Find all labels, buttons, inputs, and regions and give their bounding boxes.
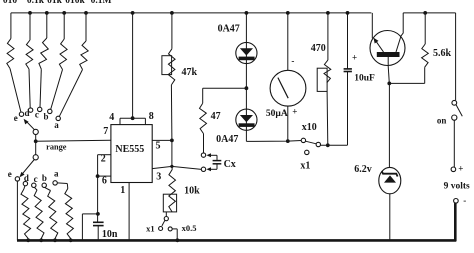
switch contact S1a [56,116,60,120]
switch contact S2a [53,181,57,185]
node 470 junction [326,143,330,147]
svg-text:0.1M: 0.1M [91,0,112,6]
resistor R-shunt3 [45,187,51,190]
meter M1 50uA [287,13,289,70]
svg-text:d: d [24,173,29,183]
switch contact x10 [301,138,305,142]
capacitor C2 10n [93,221,104,223]
svg-text:47k: 47k [182,67,198,78]
svg-text:9 volts: 9 volts [444,182,470,192]
transistor Q1 [371,13,373,38]
svg-text:NE555: NE555 [115,144,144,155]
wire contact e to ground [16,181,18,240]
switch contact S1e [19,112,23,116]
node rail junctions [28,11,32,15]
capacitor Cx under test [213,160,222,162]
capacitor C3 10uF [347,13,349,69]
node cap junction [96,212,100,216]
wire 47 top [203,87,247,89]
svg-text:b: b [42,173,47,183]
wire raw rail to switch [455,13,457,100]
svg-text:8: 8 [149,111,154,122]
wire switch to battery [453,120,455,167]
svg-text:0.1k: 0.1k [27,0,45,6]
switch contact S2b [42,183,46,187]
svg-text:5: 5 [156,141,161,152]
svg-text:5.6k: 5.6k [433,48,452,59]
svg-text:e: e [14,113,18,123]
wire zener to ground [389,194,391,240]
resistor VR2 470 [327,13,329,60]
svg-text:470: 470 [311,43,326,54]
switch contact S2d [23,181,27,185]
resistor R-range4 [63,13,65,39]
wire pin 6 [98,175,111,177]
switch wiper S1 [33,129,38,134]
node battery plus terminal [451,167,456,172]
svg-text:010: 010 [3,0,18,6]
svg-text:01k: 01k [47,0,63,6]
resistor VR1 47k [171,13,173,49]
svg-text:c: c [34,174,38,184]
svg-text:x10: x10 [302,122,317,133]
svg-text:Cx: Cx [224,159,236,170]
switch contact S2c [32,183,36,187]
switch contact S2e [15,177,19,181]
switch contact S1b [48,109,52,113]
diode D2 0A47 [236,109,257,130]
svg-text:4: 4 [109,112,114,123]
svg-text:x1: x1 [146,224,155,234]
node pin5 junction [170,139,174,143]
wire diode out [246,140,301,143]
switch contact x1 lower [159,227,163,231]
wire pin 2 [98,154,111,156]
svg-text:1: 1 [120,185,125,196]
switch S5 on [452,100,457,105]
svg-text:a: a [54,120,59,130]
node Cx bottom terminal [201,167,205,171]
resistor R-shunt1 [24,186,25,189]
node pin2-6 tie [96,174,100,178]
svg-text:+: + [292,106,297,116]
wire pin 1 to ground [128,183,130,240]
wire top rail raw segment (right) [403,12,455,14]
resistor R-range1 [10,13,12,39]
svg-text:6: 6 [102,176,107,187]
wire battery minus to ground [454,203,457,241]
node battery minus terminal [454,199,459,204]
svg-text:6.2v: 6.2v [354,164,372,175]
svg-text:-: - [291,56,294,66]
switch contact x0.5 [168,227,172,231]
wire pin 5 [152,139,172,141]
svg-text:7: 7 [103,126,108,137]
svg-text:d: d [24,108,29,118]
svg-text:c: c [35,109,39,119]
wire pin 7 [36,140,111,141]
svg-text:on: on [437,115,447,125]
node 47 junction [245,86,249,90]
resistor R-range3 [46,13,48,38]
svg-text:range: range [46,143,67,152]
op-amp U1 NE555 body [111,125,152,183]
wire pin 3 [152,166,201,169]
svg-text:3: 3 [156,171,161,182]
resistor R6 47 [202,88,204,103]
switch wiper S2 [33,155,38,160]
resistor R7 5.6k [424,13,426,44]
switch contact x1 upper [305,150,309,154]
resistor R-shunt2 [34,187,37,190]
wire top supply rail (regulated) [11,12,372,14]
resistor VR3 10k [171,166,173,169]
svg-text:+: + [352,52,357,62]
svg-text:e: e [8,169,12,179]
svg-text:0A47: 0A47 [216,134,238,145]
wire meter to diode wire [287,106,289,141]
svg-text:+: + [458,163,463,173]
node pin7 junction [34,139,38,143]
wire wiper link [35,141,37,154]
svg-text:010k: 010k [65,0,85,6]
switch contact S1d [28,108,32,112]
svg-text:10n: 10n [102,229,118,240]
diode D1 0A47 [245,13,247,142]
svg-text:b: b [43,111,48,121]
wire ground detour [82,213,98,215]
wire pins 4 8 supply bracket [120,117,145,119]
wire base to zener [388,83,390,167]
svg-text:10k: 10k [184,186,200,197]
svg-text:47: 47 [211,111,221,122]
svg-text:x0.5: x0.5 [182,223,197,233]
svg-text:a: a [54,168,59,178]
svg-text:10uF: 10uF [354,73,375,83]
resistor R-range5 [85,13,87,41]
node base junction [387,82,391,86]
switch wiper S3 [306,141,317,144]
node ground junctions left [26,238,30,242]
svg-text:50µA: 50µA [266,109,288,119]
svg-text:x1: x1 [300,160,310,171]
svg-text:0A47: 0A47 [218,23,240,34]
node Cx top terminal [201,153,205,157]
switch contact S1c [38,107,42,111]
resistor R-range2 [29,13,31,40]
switch wiper S4 [165,212,167,217]
resistor R-shunt4 [57,182,67,185]
svg-text:-: - [463,196,466,206]
wire ground rail [17,239,456,242]
